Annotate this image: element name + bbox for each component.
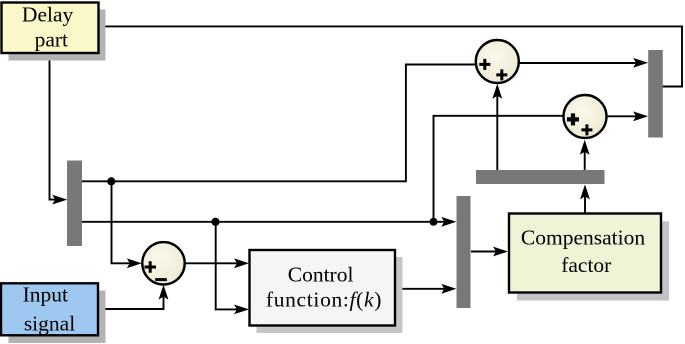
svg-text:Input: Input [23, 283, 68, 307]
svg-text:Delay: Delay [22, 2, 74, 26]
svg-text:factor: factor [561, 253, 611, 277]
svg-text:signal: signal [24, 311, 75, 335]
svg-text:function:f(k): function:f(k) [266, 287, 382, 311]
svg-text:Control: Control [288, 262, 354, 286]
svg-text:part: part [35, 28, 68, 52]
svg-text:Compensation: Compensation [521, 226, 645, 250]
